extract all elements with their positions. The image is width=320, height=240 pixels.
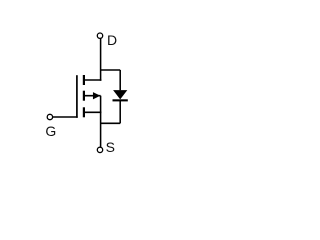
wire: diode bottom vertical — [119, 100, 121, 123]
wire: source contact horizontal from channel — [84, 111, 101, 113]
wire: diode top vertical — [119, 70, 121, 90]
channel segment (drain side) — [83, 75, 85, 85]
wire: drain contact horizontal to channel — [84, 79, 101, 81]
gate bar of Q1 — [76, 75, 78, 118]
terminal pin circle G — [47, 114, 52, 119]
wire: diode return horizontal to source — [101, 122, 121, 124]
channel segment (source side) — [83, 107, 85, 117]
wire: branch to body diode (top) — [101, 69, 121, 71]
wire: source vertical down to S terminal — [100, 96, 102, 148]
channel segment (body, middle) — [83, 91, 85, 101]
body diode D1: cathode bar — [113, 99, 128, 101]
pin label G — [45, 124, 56, 138]
arrow head on body contact (points right, P-channel) — [93, 93, 99, 99]
pin label D — [107, 33, 117, 47]
wire: body contact horizontal (arrow line) — [84, 95, 101, 97]
terminal pin circle S — [97, 147, 102, 152]
wire: gate horizontal from G terminal — [52, 116, 77, 118]
body diode D1: triangle (anode, pointing down) — [113, 90, 127, 99]
wire: drain vertical from D terminal down — [100, 38, 102, 81]
pin label S — [106, 140, 115, 154]
terminal pin circle D — [97, 33, 102, 38]
transistor Q1 (P-channel MOSFET with body diode) — [52, 38, 120, 147]
